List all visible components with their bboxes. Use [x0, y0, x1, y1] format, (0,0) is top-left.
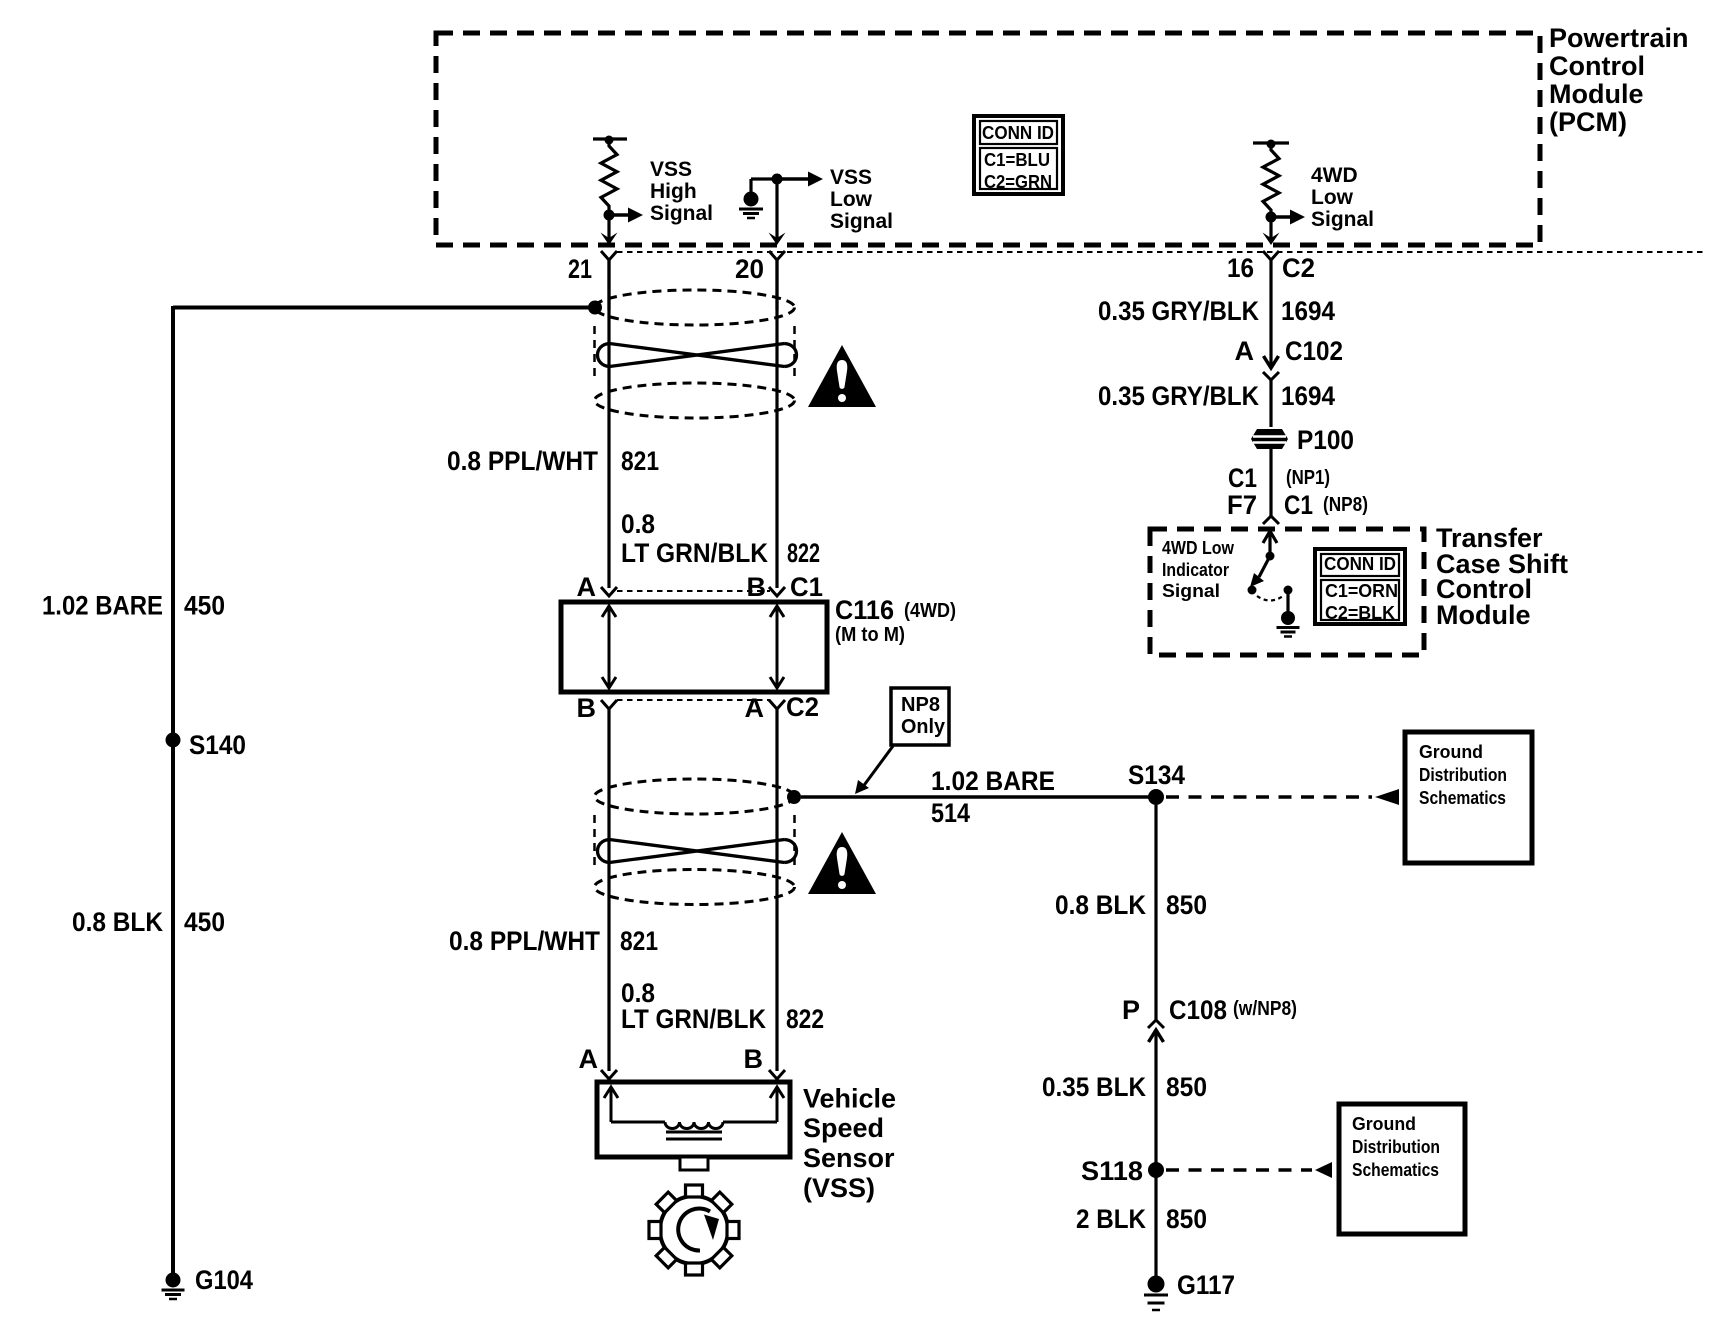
svg-text:C1: C1 — [1228, 463, 1257, 493]
dashed reference to ground distribution — [1166, 795, 1372, 799]
node VSS Low junction — [772, 174, 783, 185]
svg-text:C108: C108 — [1169, 995, 1227, 1025]
svg-text:A: A — [745, 693, 765, 723]
svg-text:C1: C1 — [790, 572, 823, 602]
connector C102 inline — [1269, 260, 1272, 366]
node shield junction to wire 514 — [787, 790, 801, 804]
svg-text:CONN ID: CONN ID — [1324, 554, 1396, 574]
svg-text:(M to M): (M to M) — [835, 624, 905, 646]
svg-text:(PCM): (PCM) — [1549, 107, 1627, 137]
svg-text:(NP8): (NP8) — [1323, 494, 1368, 516]
wire 822 segment pin20 to C116 — [775, 260, 778, 588]
ground G104 — [166, 1273, 181, 1288]
C116 pass-through arrow A-B — [608, 608, 611, 686]
svg-text:B: B — [577, 693, 597, 723]
resistor VSS High pull-up inside PCM — [593, 137, 627, 140]
pin 16 chevron — [1263, 251, 1279, 260]
connector C108 inline — [1148, 1020, 1164, 1028]
svg-text:514: 514 — [931, 798, 970, 828]
svg-text:C1=ORN: C1=ORN — [1325, 581, 1398, 601]
VSS reluctor gear — [649, 1185, 739, 1275]
node VSS High Signal junction — [604, 210, 615, 221]
arrow 4WD Low Signal — [1271, 215, 1291, 219]
svg-text:850: 850 — [1166, 1072, 1207, 1102]
svg-text:Indicator: Indicator — [1162, 560, 1229, 580]
svg-text:Control: Control — [1549, 51, 1645, 81]
svg-text:1694: 1694 — [1281, 381, 1335, 411]
svg-text:Schematics: Schematics — [1419, 788, 1506, 808]
VSS stub — [680, 1157, 708, 1170]
svg-text:C2=BLK: C2=BLK — [1325, 603, 1395, 623]
svg-text:1.02 BARE: 1.02 BARE — [42, 591, 163, 621]
svg-text:VSS: VSS — [650, 158, 692, 181]
wire pin 21 exit — [607, 215, 610, 239]
svg-text:Signal: Signal — [1311, 208, 1374, 231]
svg-text:Module: Module — [1436, 600, 1531, 630]
svg-text:(VSS): (VSS) — [803, 1173, 875, 1203]
svg-text:Low: Low — [1311, 186, 1354, 209]
svg-text:C116: C116 — [835, 595, 894, 625]
callout box NP8 Only — [891, 688, 949, 745]
splice S118 — [1148, 1162, 1164, 1178]
svg-text:Schematics: Schematics — [1352, 1160, 1439, 1180]
wire pin 20 exit — [775, 179, 778, 239]
svg-text:Signal: Signal — [1162, 581, 1220, 601]
svg-text:0.8 BLK: 0.8 BLK — [72, 907, 163, 937]
ground G117 — [1148, 1276, 1165, 1293]
Vehicle Speed Sensor box — [597, 1082, 790, 1157]
PCM connector face dashed line — [617, 251, 1706, 253]
svg-text:F7: F7 — [1227, 490, 1257, 520]
module box: Powertrain Control Module (PCM) dashed outline — [436, 33, 1540, 245]
switch 4WD low indicator — [1268, 533, 1271, 554]
svg-text:822: 822 — [787, 538, 820, 568]
reference box Ground Distribution Schematics 1 — [1405, 732, 1532, 863]
svg-text:850: 850 — [1166, 1204, 1207, 1234]
svg-text:A: A — [577, 572, 597, 602]
svg-text:822: 822 — [786, 1004, 824, 1034]
arrow VSS Low Signal — [777, 177, 809, 181]
wire 822 segment C116 to VSS — [775, 709, 778, 1071]
svg-text:S140: S140 — [189, 730, 246, 760]
module box: Transfer Case Shift Control Module dashed outline — [1150, 529, 1424, 655]
svg-text:Distribution: Distribution — [1352, 1137, 1440, 1157]
svg-text:0.8 PPL/WHT: 0.8 PPL/WHT — [449, 926, 600, 956]
connector C116 box — [561, 602, 827, 692]
svg-text:0.8 BLK: 0.8 BLK — [1055, 890, 1146, 920]
svg-text:2 BLK: 2 BLK — [1076, 1204, 1146, 1234]
VSS core lines — [666, 1131, 722, 1134]
dashed reference to ground distribution 2 — [1166, 1168, 1312, 1172]
svg-text:S134: S134 — [1128, 760, 1185, 790]
wire 821 segment C116 to VSS — [607, 709, 610, 1071]
svg-text:High: High — [650, 180, 697, 203]
svg-text:G104: G104 — [195, 1265, 253, 1295]
svg-text:S118: S118 — [1081, 1156, 1143, 1186]
svg-text:C2: C2 — [1282, 253, 1315, 283]
svg-text:4WD Low: 4WD Low — [1162, 538, 1235, 558]
grommet P100 — [1251, 429, 1288, 449]
svg-text:Ground: Ground — [1419, 742, 1483, 762]
svg-text:Speed: Speed — [803, 1113, 884, 1143]
svg-text:Only: Only — [901, 716, 946, 738]
pin F7/C1 chevron at transfer case — [1263, 516, 1279, 524]
svg-text:0.35 BLK: 0.35 BLK — [1042, 1072, 1146, 1102]
switch ground — [1286, 590, 1289, 612]
wire 450 horizontal from shield to left run — [173, 306, 590, 310]
svg-text:0.8: 0.8 — [621, 509, 655, 539]
svg-text:(4WD): (4WD) — [904, 600, 956, 622]
svg-text:B: B — [744, 1044, 764, 1074]
node shield junction at twisted pair 1 — [588, 301, 602, 315]
VSS inductor coil — [611, 1121, 665, 1124]
svg-text:1694: 1694 — [1281, 296, 1335, 326]
svg-text:21: 21 — [568, 254, 592, 284]
svg-text:16: 16 — [1227, 253, 1254, 283]
wire 514 1.02 BARE — [801, 795, 1156, 799]
pin 21 chevron — [601, 251, 617, 260]
svg-text:B: B — [747, 572, 767, 602]
svg-text:A: A — [579, 1044, 599, 1074]
svg-text:850: 850 — [1166, 890, 1207, 920]
node 4WD Low junction — [1266, 212, 1277, 223]
twisted/shielded pair 1 — [595, 290, 795, 325]
svg-text:Ground: Ground — [1352, 1114, 1416, 1134]
svg-text:Low: Low — [830, 188, 873, 211]
VSS coil internal arrow A — [610, 1089, 613, 1122]
svg-text:LT GRN/BLK: LT GRN/BLK — [621, 538, 768, 568]
svg-text:Module: Module — [1549, 79, 1644, 109]
svg-text:Vehicle: Vehicle — [803, 1084, 896, 1114]
svg-text:CONN ID: CONN ID — [982, 123, 1054, 143]
svg-text:450: 450 — [184, 591, 225, 621]
reference box Ground Distribution Schematics 2 — [1339, 1104, 1465, 1234]
svg-text:P100: P100 — [1297, 425, 1354, 455]
arrow VSS High Signal — [609, 213, 629, 217]
svg-text:Signal: Signal — [830, 210, 893, 233]
wire 821 segment pin21 to C116 — [607, 260, 610, 588]
svg-text:C2=GRN: C2=GRN — [984, 172, 1052, 192]
wire 1694 to transfer case — [1269, 449, 1272, 516]
twisted/shielded pair 2 — [595, 779, 795, 814]
pin 20 chevron — [769, 251, 785, 260]
connector C116 bottom pins B A C2 — [601, 700, 617, 709]
svg-text:LT GRN/BLK: LT GRN/BLK — [621, 1004, 766, 1034]
svg-text:1.02 BARE: 1.02 BARE — [931, 766, 1055, 796]
splice S134 — [1148, 789, 1164, 805]
C116 pass-through arrow B-A — [776, 608, 779, 686]
svg-text:20: 20 — [735, 254, 764, 284]
wire 850 from S134 down — [1154, 805, 1157, 1020]
svg-text:4WD: 4WD — [1311, 164, 1358, 187]
svg-text:G117: G117 — [1177, 1270, 1235, 1300]
svg-text:821: 821 — [620, 926, 658, 956]
svg-text:A: A — [1235, 336, 1255, 366]
warning triangle 1 — [808, 345, 876, 407]
svg-text:Signal: Signal — [650, 202, 713, 225]
svg-text:C1=BLU: C1=BLU — [984, 150, 1050, 170]
svg-text:Powertrain: Powertrain — [1549, 23, 1689, 53]
wire pin 16 exit — [1269, 217, 1272, 239]
svg-text:Distribution: Distribution — [1419, 765, 1507, 785]
svg-text:(NP1): (NP1) — [1286, 467, 1330, 489]
svg-text:0.35 GRY/BLK: 0.35 GRY/BLK — [1098, 296, 1259, 326]
VSS coil internal arrow B — [776, 1089, 779, 1122]
CONN ID table PCM: C1=BLU C2=GRN — [974, 116, 1063, 194]
warning triangle 2 — [808, 832, 876, 894]
svg-text:P: P — [1122, 995, 1140, 1025]
wire 450 left vertical run — [171, 306, 175, 1274]
svg-text:0.35 GRY/BLK: 0.35 GRY/BLK — [1098, 381, 1259, 411]
splice S140 — [166, 733, 181, 748]
arrow NP8 Only to wire 514 — [862, 746, 893, 788]
resistor 4WD Low pull-up inside PCM — [1253, 141, 1289, 144]
ground symbol VSS Low reference inside PCM — [751, 177, 777, 180]
svg-text:C102: C102 — [1285, 336, 1343, 366]
svg-text:0.8 PPL/WHT: 0.8 PPL/WHT — [447, 446, 598, 476]
svg-text:(w/NP8): (w/NP8) — [1233, 998, 1297, 1020]
svg-text:VSS: VSS — [830, 166, 872, 189]
CONN ID table transfer case: C1=ORN C2=BLK — [1315, 549, 1405, 624]
svg-text:C1: C1 — [1284, 490, 1313, 520]
svg-text:450: 450 — [184, 907, 225, 937]
svg-text:821: 821 — [621, 446, 659, 476]
svg-text:C2: C2 — [786, 692, 819, 722]
svg-text:Sensor: Sensor — [803, 1143, 895, 1173]
svg-text:NP8: NP8 — [901, 694, 940, 716]
